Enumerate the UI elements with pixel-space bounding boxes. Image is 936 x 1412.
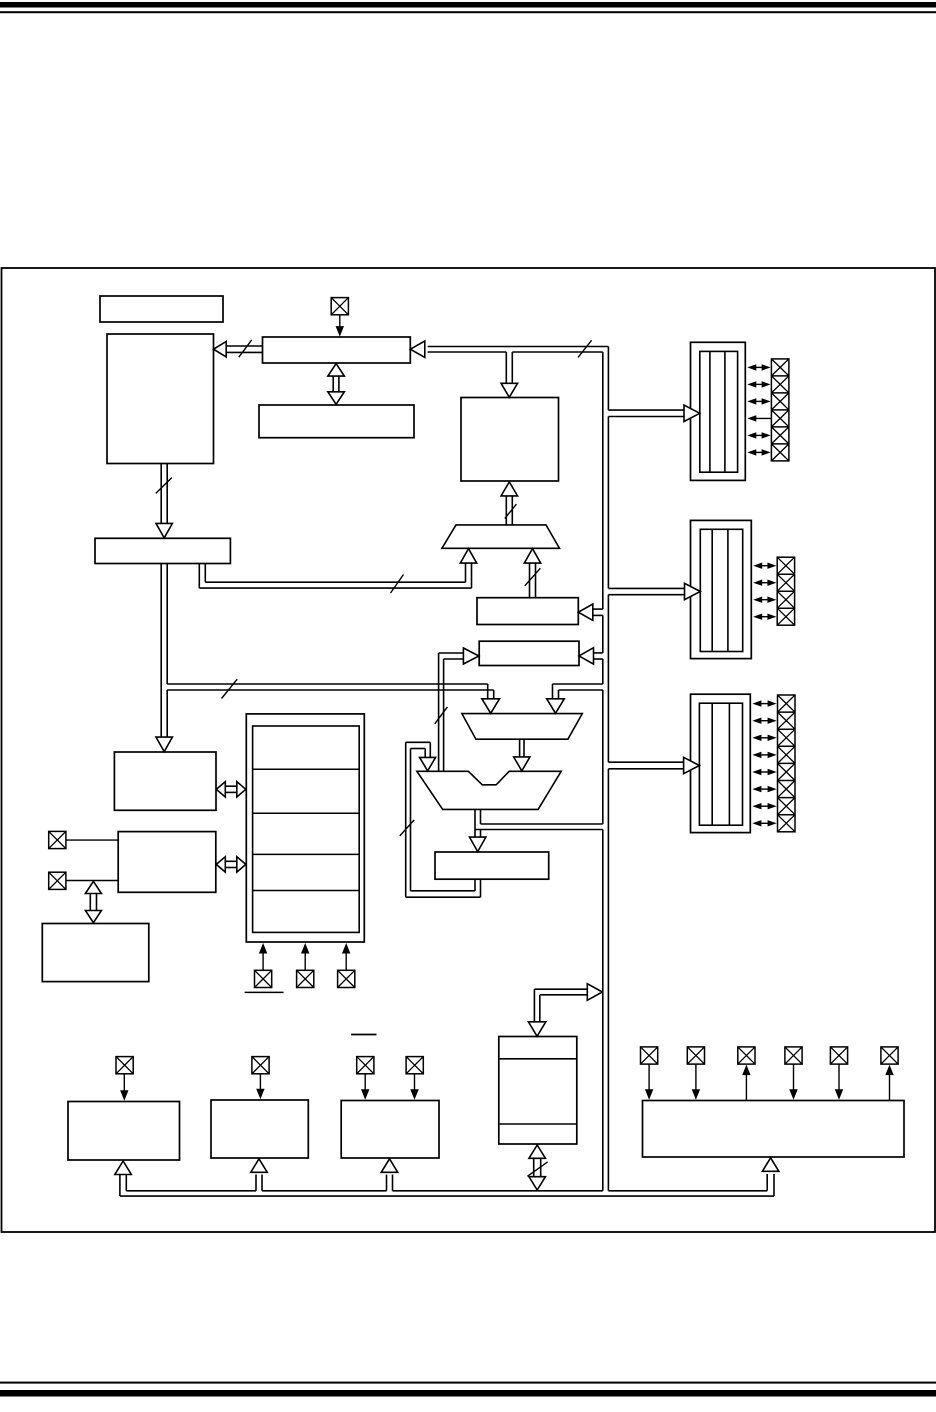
register bus horizontal upper line — [167, 683, 488, 685]
arrow head register bus into operand mux — [482, 699, 500, 714]
wire bus to port 1 shaft — [608, 410, 684, 416]
register file row line 4 — [253, 890, 360, 892]
riser to peripheral 1 — [120, 1175, 126, 1197]
top bus width slash — [578, 340, 592, 357]
double arrow interrupt to register file — [216, 857, 246, 872]
pad io 2 — [687, 1047, 704, 1064]
wire reset pad up — [262, 950, 264, 970]
arrow head operand mux into ALU — [514, 757, 530, 771]
PC bus horizontal lower line — [199, 587, 471, 589]
port 3 pad arrow 7 — [752, 803, 776, 809]
slash on control-ALU wire — [435, 707, 448, 724]
arrow head into timing control — [156, 737, 172, 752]
status feedback top horizontal — [406, 742, 431, 748]
wire ALU output shaft — [475, 809, 481, 838]
diagram frame — [2, 268, 936, 1232]
port 2 driver line b — [727, 529, 729, 651]
serial unit bus horizontal — [534, 989, 588, 995]
wire control register to ALU vertical — [439, 653, 444, 771]
arrow head feedback into ALU — [420, 757, 436, 771]
riser to peripheral 2 — [256, 1175, 262, 1191]
box peripheral 3 — [341, 1101, 439, 1159]
box serial unit — [499, 1037, 577, 1145]
wire io pad 3 up — [745, 1075, 747, 1101]
arrow head into CPU — [214, 341, 227, 357]
double arrow serial unit to bottom bus — [529, 1145, 546, 1190]
pad io 6 — [881, 1047, 898, 1064]
arrow head pad 2 into register file — [301, 943, 309, 954]
port 2 pad arrow 1 — [753, 563, 776, 569]
slash on serial unit bus — [527, 1162, 547, 1176]
wire io pad 1 down — [648, 1064, 650, 1091]
arrow head bus into control register — [579, 648, 594, 664]
port 1 pad arrow 5 — [747, 432, 770, 438]
port 3 driver line a — [711, 703, 713, 825]
wire io pad 2 down — [695, 1064, 697, 1091]
box data bus register — [263, 337, 411, 363]
bottom bus lower line — [120, 1195, 774, 1197]
arrow head decoder into mux — [524, 549, 540, 564]
arrow head pad 3 into register file — [342, 943, 350, 954]
arrow head PC bus into mux — [460, 549, 476, 564]
arrow head mux into program memory — [501, 482, 518, 496]
pad io 3 — [738, 1047, 755, 1064]
mux trapezoid operand select — [462, 714, 582, 740]
arrow head pad b into peripheral 3 — [410, 1089, 418, 1100]
wire pad 2 up — [304, 950, 306, 970]
wire mux to program memory shaft — [506, 496, 512, 525]
wire bus to control register shaft — [592, 653, 603, 659]
main data bus vertical right line — [607, 347, 609, 1191]
arrow head io pad 2 into io unit — [692, 1089, 700, 1100]
arrow head into program counter — [156, 523, 172, 538]
ALU — [417, 771, 561, 809]
operand bus horizontal lower line — [559, 689, 603, 691]
riser to peripheral 3 — [387, 1175, 393, 1191]
arrow head io pad 4 into io unit — [789, 1089, 797, 1100]
box CPU top-left — [107, 334, 214, 464]
arrow head bus into serial unit — [528, 1022, 545, 1037]
box label top-left — [100, 296, 223, 322]
register bus down segment — [488, 684, 494, 701]
wire operand mux to ALU shaft — [520, 739, 524, 757]
wire pad b down to peripheral 3 — [414, 1074, 416, 1092]
wire io pad 4 down — [793, 1064, 795, 1091]
port 2 pad arrow 4 — [753, 614, 776, 620]
pad peripheral 3 input b — [406, 1057, 423, 1074]
wire pad to interrupt unit 1 — [66, 839, 118, 841]
PC bus up segment — [466, 562, 472, 588]
box instruction decoder — [477, 598, 578, 625]
wire pad to interrupt unit 2 — [66, 880, 118, 882]
arrow head clock into data bus register — [336, 326, 344, 337]
slash on PC bus — [391, 575, 404, 594]
arrow head pad into peripheral 1 — [120, 1090, 128, 1101]
pad clock input — [331, 298, 348, 315]
status feedback left vertical — [406, 742, 411, 897]
wire bus to port 3 shaft — [608, 762, 684, 769]
arrow head pad a into peripheral 3 — [361, 1089, 369, 1100]
arrow head into port 3 — [684, 757, 700, 773]
pad io 4 — [785, 1047, 802, 1064]
page top thick rule — [0, 2, 936, 8]
double arrow timing to register file — [216, 782, 246, 797]
box interrupt unit — [118, 832, 216, 893]
arrow head into control register from ALU path — [463, 648, 479, 664]
slash on feedback wire — [400, 820, 414, 836]
main data bus vertical left line — [602, 352, 604, 1191]
riser to io unit — [767, 1174, 774, 1196]
page bottom thick rule — [0, 1390, 936, 1397]
pad io 1 — [641, 1047, 658, 1064]
arrow head io pad 5 into io unit — [835, 1089, 843, 1100]
register file inner box — [253, 726, 360, 932]
port 2 pad column (4 crossed pads) — [777, 557, 794, 625]
port 3 pad arrow 6 — [752, 786, 776, 792]
slash on decoder-mux bus — [525, 568, 541, 586]
pad register file input 1 (reset) — [255, 970, 272, 987]
pad peripheral 2 input — [252, 1057, 269, 1074]
PC bus horizontal upper line — [205, 581, 465, 583]
port 3 pad arrow 2 — [752, 718, 776, 724]
arrow head into peripheral 3 — [381, 1159, 398, 1173]
port 1 pad arrow 3 — [747, 398, 770, 404]
top bus horizontal upper line — [428, 346, 609, 348]
wire bus to decoder shaft — [592, 609, 603, 615]
register file row line 2 — [253, 812, 360, 814]
wire control register to ALU horizontal — [439, 653, 464, 659]
box timing control — [114, 752, 216, 810]
arrow head operand bus into operand mux — [547, 699, 565, 714]
port 1 driver inner box — [700, 351, 738, 472]
arrow head io unit to pad 3 — [742, 1065, 750, 1076]
top bus arrow head into data bus register — [410, 341, 425, 357]
pad peripheral 3 input a — [357, 1057, 374, 1074]
slash on CPU-PC bus — [156, 478, 172, 494]
arrow head ALU into status register — [470, 837, 486, 852]
port 2 pad arrow 2 — [753, 580, 776, 586]
pad control input 1 — [49, 831, 66, 848]
page bottom thin rule — [0, 1382, 936, 1384]
box program counter — [95, 538, 230, 563]
port 2 driver line a — [711, 529, 713, 651]
port 3 pad arrow 5 — [752, 769, 776, 775]
port 2 driver outer box — [691, 520, 752, 658]
box io unit bottom-right — [643, 1101, 905, 1158]
port 3 pad arrow 3 — [752, 735, 776, 741]
box control register — [479, 641, 579, 665]
register file outer box — [246, 714, 364, 942]
operand bus down segment — [553, 684, 559, 700]
box peripheral 1 — [68, 1102, 180, 1161]
pad io 5 — [830, 1047, 847, 1064]
port 1 pad arrow 2 — [747, 381, 770, 387]
port 2 pad arrow 3 — [753, 597, 776, 603]
port 3 driver inner box — [699, 703, 742, 825]
underline reset pad — [245, 991, 284, 993]
port 3 pad column (8 crossed pads) — [778, 695, 796, 832]
box serial unit divider top — [499, 1058, 577, 1060]
box serial unit divider bottom — [499, 1123, 577, 1125]
arrow head reset into register file — [259, 943, 267, 954]
arrow head bus into decoder — [578, 604, 593, 620]
slash on CPU bus — [239, 340, 252, 357]
wire io pad 6 up — [889, 1075, 891, 1101]
arrow head into peripheral 2 — [251, 1159, 268, 1173]
wire decoder to mux shaft — [530, 562, 536, 598]
double arrow interrupt to watchdog — [85, 881, 101, 922]
double arrow data bus register to instruction register — [328, 364, 345, 405]
wire program counter down shaft — [161, 564, 167, 739]
PC bus down segment — [199, 564, 205, 589]
wire ALU to bus lower line — [475, 829, 603, 831]
arrow head io unit to pad 6 — [885, 1065, 893, 1076]
port 1 driver line b — [724, 351, 726, 472]
box instruction register — [259, 405, 414, 438]
box program memory — [461, 398, 559, 482]
wire clock pad down — [339, 315, 341, 329]
port 1 driver line a — [709, 351, 711, 472]
page top thin rule — [0, 11, 936, 13]
wire pad 3 up — [345, 950, 347, 970]
arrow head pad into peripheral 2 — [256, 1089, 264, 1100]
box peripheral 2 — [211, 1100, 308, 1158]
pad control input 2 — [49, 872, 66, 889]
wire ALU to bus upper line — [481, 823, 603, 825]
port 1 pad arrow 4 (input only) — [747, 415, 771, 421]
port 1 pad arrow 1 — [747, 364, 770, 370]
wire pad down to peripheral 1 — [123, 1074, 125, 1092]
arrow head into port 2 — [685, 583, 701, 599]
wire pad down to peripheral 2 — [259, 1074, 261, 1091]
status feedback right vertical — [475, 879, 481, 897]
port 1 pad column (6 crossed pads) — [771, 359, 789, 461]
pad register file input 2 — [297, 970, 314, 987]
arrow head io pad 1 into io unit — [645, 1089, 653, 1100]
bottom bus upper line — [126, 1190, 767, 1192]
mux trapezoid program address — [442, 525, 560, 548]
arrow head into port 1 — [684, 405, 700, 421]
arrow head into peripheral 1 — [115, 1161, 132, 1175]
box watchdog — [42, 924, 149, 982]
slash on mux-program bus — [505, 504, 517, 518]
port 3 driver outer box — [691, 694, 751, 832]
arrow head serial to bus — [587, 984, 602, 1001]
port 1 pad arrow 6 — [747, 449, 770, 455]
status feedback down segment — [425, 742, 430, 757]
register bus horizontal lower line — [167, 689, 494, 691]
top bus horizontal lower line — [428, 351, 603, 353]
bus branch to program memory shaft — [506, 352, 512, 383]
register file row line 3 — [253, 853, 360, 855]
port 3 pad arrow 1 — [752, 700, 776, 706]
wire bus to port 2 shaft — [608, 588, 684, 594]
slash on register bus — [222, 679, 238, 698]
port 3 pad arrow 8 — [752, 820, 776, 826]
operand bus horizontal upper line — [553, 683, 603, 685]
bus branch to program memory head — [501, 383, 518, 397]
serial unit bus vertical — [534, 989, 539, 1022]
port 1 driver outer box — [691, 342, 746, 480]
port 3 pad arrow 4 — [752, 752, 776, 758]
wire io pad 5 down — [838, 1064, 840, 1091]
status feedback bottom horizontal — [406, 891, 481, 897]
pad register file input 3 — [338, 970, 355, 987]
wire CPU to program counter shaft — [161, 464, 167, 525]
wire pad a down to peripheral 3 — [364, 1074, 366, 1092]
pad peripheral 1 input — [116, 1057, 133, 1074]
register file row line 1 — [253, 768, 360, 770]
wire data bus to CPU shaft — [226, 346, 263, 352]
arrow head into io unit — [762, 1158, 779, 1172]
overbar peripheral 3 pad — [351, 1034, 376, 1036]
port 3 driver line b — [728, 703, 730, 825]
port 2 driver inner box — [700, 529, 742, 651]
box status register — [435, 852, 549, 879]
